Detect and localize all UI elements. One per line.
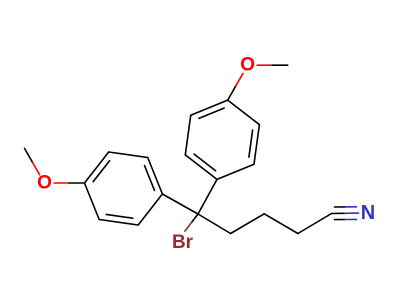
C-Br bond: [185, 214, 198, 231]
top benzene ring: [185, 100, 259, 179]
bond left ring to central C: [162, 194, 198, 214]
nitrile triple bond C#N: [332, 207, 359, 220]
left methoxy O-CH3 bond: [25, 148, 40, 174]
top methoxy O-ring bond: [228, 73, 243, 100]
chain bond C-C (1): [198, 214, 231, 234]
bond top ring to central C: [198, 179, 217, 214]
chain bond C-C (3): [264, 214, 298, 234]
svg-text:N: N: [361, 202, 375, 224]
left methoxy O-ring bond: [54, 182, 85, 184]
top methoxy O-CH3 bond: [257, 64, 288, 66]
svg-text:O: O: [240, 55, 255, 76]
svg-text:O: O: [37, 173, 52, 194]
chain bond C-C (4): [298, 214, 332, 234]
chain bond C-C (2): [231, 214, 265, 234]
left benzene ring: [85, 152, 163, 225]
svg-text:Br: Br: [172, 232, 194, 253]
